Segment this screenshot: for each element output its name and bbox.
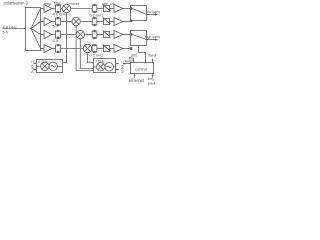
- wire low band out: [147, 14, 156, 16]
- svg-text:polarisation 0: polarisation 0: [4, 1, 29, 6]
- arrow ethernet: [134, 73, 136, 75]
- wire row4 c: [61, 48, 84, 50]
- svg-text:mixer: mixer: [70, 1, 80, 6]
- svg-text:high band: high band: [145, 35, 160, 39]
- arrow band: [152, 58, 154, 60]
- wire fan to row 1: [31, 9, 41, 29]
- filter F8: [92, 45, 97, 52]
- amplifier A4: [44, 45, 52, 53]
- svg-text:0-2 GHz: 0-2 GHz: [90, 53, 104, 57]
- attenuator AT3: [104, 32, 110, 38]
- wire row2 d: [80, 21, 92, 23]
- wire SW2 path: [132, 35, 146, 40]
- amplifier A1: [44, 5, 52, 13]
- wire row3 e: [97, 34, 104, 36]
- wire row4 a: [41, 48, 45, 50]
- wire row3 a: [41, 34, 45, 36]
- wire SW1 path: [132, 9, 146, 15]
- amplifier A7: [114, 31, 123, 39]
- wire LO to mixer M2: [76, 26, 93, 71]
- arrow attn: [128, 57, 130, 59]
- mixer M1: [62, 4, 70, 12]
- wire LO to mixer M4: [88, 53, 94, 63]
- wire PLO2 internal a: [94, 66, 97, 68]
- arrow to pol. 1 d: [116, 69, 118, 71]
- arrow to pol. 1 a: [35, 63, 37, 65]
- wire row2 g: [123, 21, 132, 23]
- switch SW1: [131, 6, 147, 21]
- attenuator AT4: [104, 46, 110, 52]
- svg-text:5-7: 5-7: [53, 24, 60, 29]
- filter F3: [56, 31, 61, 38]
- filter F1: [56, 5, 61, 12]
- wire PLO1 internal a: [37, 65, 41, 67]
- svg-text:low band: low band: [146, 10, 160, 14]
- filter F5: [92, 5, 97, 12]
- filter F4: [56, 45, 61, 52]
- wire band control: [152, 60, 154, 63]
- amplifier A3: [44, 31, 52, 39]
- svg-text:band: band: [148, 54, 156, 58]
- wire row3 b: [52, 34, 56, 36]
- wire row3 c: [61, 34, 77, 36]
- wire row4 f: [110, 48, 115, 50]
- svg-text:5-9: 5-9: [3, 30, 9, 34]
- wire row2 b: [52, 21, 56, 23]
- mixer PLO1 phase detector: [41, 62, 49, 70]
- arrow to pol. 1 b: [35, 69, 37, 71]
- splitter S1: [26, 8, 41, 51]
- filter F6: [92, 18, 97, 25]
- wire PLO2 internal b: [113, 66, 115, 68]
- wire fan to row 4: [31, 29, 41, 49]
- wire row2 e: [97, 21, 104, 23]
- wire row1 b: [52, 8, 56, 10]
- arrow low band: [155, 13, 158, 15]
- svg-text:control: control: [135, 66, 147, 71]
- node splitter junction: [30, 28, 32, 30]
- wire row1 e: [97, 8, 104, 10]
- arrow to pol. 1 c: [116, 63, 118, 65]
- amplifier A6: [114, 18, 123, 26]
- svg-text:to pol. 1: to pol. 1: [31, 61, 35, 73]
- wire fan to row 3: [31, 29, 41, 35]
- oscillator module PLO1 6 GHz: [37, 60, 63, 73]
- wire LO to mixer M3: [80, 39, 93, 69]
- amplifier A8: [114, 45, 123, 53]
- wire ethernet: [134, 75, 136, 78]
- oscillator module PLO2 7 GHz: [94, 59, 116, 73]
- wire row4 g: [123, 48, 132, 50]
- wire row2 c: [61, 21, 72, 23]
- wire keypad: [152, 75, 154, 78]
- wire synth control: [124, 63, 131, 65]
- wire row1 g: [123, 8, 132, 10]
- wire row3 d: [85, 34, 93, 36]
- wire row1 f: [110, 8, 115, 10]
- wire row3 f: [110, 34, 115, 36]
- node SW1 input 1: [130, 7, 133, 10]
- wire PLO1 internal b: [57, 65, 62, 67]
- arrow high band: [155, 38, 158, 40]
- attenuator AT2: [104, 19, 110, 25]
- wire row1 d: [71, 8, 93, 10]
- wire band select: [139, 46, 146, 63]
- svg-text:attn: attn: [131, 54, 137, 58]
- switch SW2: [131, 31, 147, 46]
- arrow keypad: [152, 73, 154, 75]
- mixer M4: [83, 44, 91, 52]
- svg-text:synth: synth: [125, 59, 134, 63]
- wire high band out: [147, 39, 156, 41]
- node SW2 input 1: [130, 33, 133, 36]
- wire attn control: [129, 58, 134, 63]
- wire row4 b: [52, 48, 56, 50]
- svg-text:ethernet: ethernet: [129, 78, 145, 83]
- filter F7: [92, 31, 97, 38]
- wire row3 g: [123, 34, 132, 36]
- arrow synth: [122, 63, 124, 65]
- mixer M2: [72, 17, 80, 25]
- wire row2 a: [41, 21, 45, 23]
- amplifier A2: [44, 18, 52, 26]
- attenuator AT1: [104, 6, 110, 12]
- node SW2 input 2: [130, 47, 133, 50]
- amplifier A5: [114, 5, 123, 13]
- svg-text:pad: pad: [148, 80, 155, 85]
- filter F2: [56, 18, 61, 25]
- wire row1 a: [41, 8, 45, 10]
- node SW1 input 2: [130, 20, 133, 23]
- oscillator PLO1 VCO: [49, 62, 57, 70]
- wire LO to mixer M1: [63, 13, 67, 63]
- mixer PLO2 phase detector: [97, 63, 105, 71]
- mixer M3: [76, 30, 84, 38]
- oscillator PLO2 VCO: [105, 63, 113, 71]
- svg-text:6-8: 6-8: [53, 38, 60, 43]
- wire row4 e: [97, 48, 104, 50]
- wire fan to row 2: [31, 22, 41, 29]
- wire row2 f: [110, 21, 115, 23]
- box control: [131, 63, 154, 74]
- wire row4 d: [91, 48, 94, 50]
- wire row1 c: [61, 8, 63, 10]
- wire input: [3, 28, 26, 30]
- svg-text:0-2 GHz: 0-2 GHz: [90, 13, 104, 17]
